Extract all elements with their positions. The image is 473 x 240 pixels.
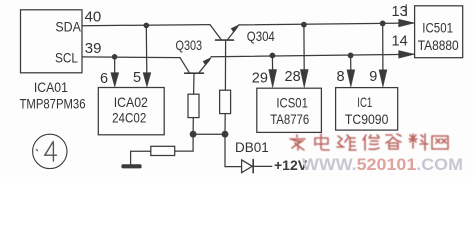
arrow into ICA02 pin6: [111, 73, 119, 87]
arrow into ICS01 pin29: [269, 70, 277, 88]
svg-text:29: 29: [252, 71, 268, 87]
svg-text:TA8880: TA8880: [418, 37, 459, 53]
wire resistor to ground: [131, 151, 151, 164]
wire SCL left segment (pin 39 to Q303): [82, 56, 180, 59]
wire ICS01 pin29 drop: [271, 56, 273, 71]
diode DB01: [242, 160, 272, 173]
svg-text:ICA01: ICA01: [34, 79, 68, 95]
svg-text:WWW.520101.COM: WWW.520101.COM: [302, 155, 463, 174]
IC IC501 box: [415, 6, 463, 58]
transistor Q303: [180, 58, 211, 95]
svg-text:TMP87PM36: TMP87PM36: [20, 97, 86, 112]
arrow into IC1 pin9: [379, 70, 387, 87]
svg-text:5: 5: [133, 70, 141, 86]
wire IC1 pin9 riser: [382, 23, 384, 70]
char zi: [386, 134, 401, 149]
junction dot SDA pin5: [144, 23, 150, 29]
wire ICA02 pin5 drop: [145, 25, 148, 74]
wire R bottom to node: [224, 114, 226, 135]
wire node to diode: [225, 134, 241, 166]
svg-text:13: 13: [392, 4, 408, 20]
wire node joining bases: [193, 133, 225, 135]
junction dot SCL pin29: [270, 53, 276, 59]
svg-text:6: 6: [100, 71, 108, 87]
svg-text:ICS01: ICS01: [276, 95, 308, 111]
svg-text:28: 28: [285, 69, 301, 85]
junction dot base node left: [190, 131, 197, 138]
char jia: [290, 135, 305, 150]
char wang: [432, 136, 448, 149]
arrow into IC501 pin13: [399, 19, 415, 27]
arrow into IC501 pin14: [399, 51, 415, 59]
IC IC1 box: [336, 88, 398, 131]
junction dot SDA pin9: [380, 21, 386, 27]
svg-text:40: 40: [85, 9, 102, 26]
junction dot base node right: [222, 131, 229, 138]
svg-text:DB01: DB01: [235, 140, 269, 155]
svg-text:14: 14: [392, 34, 408, 50]
char wei: [337, 135, 356, 150]
junction dot SDA pin28: [301, 22, 307, 28]
svg-text:39: 39: [85, 40, 102, 57]
char dian: [315, 134, 329, 150]
page marker circle 4: [33, 134, 67, 168]
svg-text:9: 9: [369, 69, 377, 85]
wire SDA right segment (Q304 to IC501 pin 13): [239, 23, 414, 25]
resistor R (Q304 base): [220, 90, 231, 113]
arrow into ICA02 pin5: [143, 73, 151, 87]
wire SCL right segment (Q303 to IC501 pin 14): [211, 54, 414, 57]
page number 4: [36, 142, 56, 162]
svg-text:Q304: Q304: [247, 28, 275, 44]
svg-text:8: 8: [337, 69, 345, 85]
svg-text:IC501: IC501: [422, 20, 453, 36]
wire ICS01 pin28 riser: [303, 25, 305, 70]
watermark www.520101.com: [302, 155, 463, 174]
svg-text:24C02: 24C02: [112, 110, 146, 126]
wire SDA left segment (pin 40 to Q304): [82, 25, 210, 26]
junction dot SCL pin8: [348, 53, 354, 59]
svg-text:Q303: Q303: [176, 37, 203, 53]
IC ICA02 box: [98, 88, 164, 135]
svg-text:SCL: SCL: [55, 50, 78, 66]
svg-text:ICA02: ICA02: [114, 94, 148, 110]
svg-text:TA8776: TA8776: [270, 111, 309, 127]
transistor Q304: [210, 25, 239, 91]
svg-text:TC9090: TC9090: [345, 111, 389, 127]
ground: [121, 164, 141, 168]
wire ICA02 pin6 drop: [114, 57, 116, 74]
watermark chinese characters: [290, 134, 448, 150]
IC ICA01 box: [21, 10, 83, 73]
char xiu: [363, 135, 379, 150]
arrow into ICS01 pin28: [300, 70, 308, 88]
junction dot SCL pin6: [112, 54, 118, 60]
resistor R bias (horizontal): [151, 146, 175, 155]
wire IC1 pin8 drop: [350, 55, 352, 70]
wire node to bias resistor: [175, 134, 193, 151]
wire R bottom to node: [192, 118, 194, 135]
resistor R (Q303 base): [188, 94, 199, 117]
svg-text:SDA: SDA: [55, 19, 81, 35]
char liao: [409, 134, 428, 150]
svg-text:IC1: IC1: [357, 94, 372, 110]
IC ICS01 box: [257, 88, 322, 132]
arrow into IC1 pin8: [347, 70, 355, 87]
pin13 tick: [405, 5, 407, 16]
